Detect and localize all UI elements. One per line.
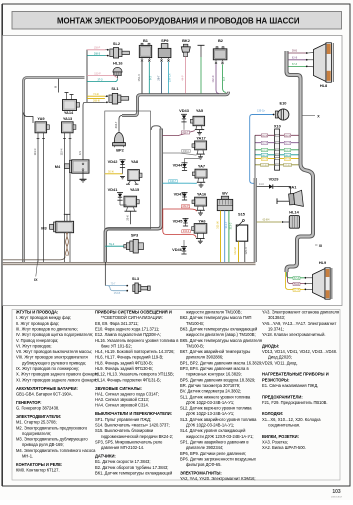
svg-text:115-Ч: 115-Ч: [59, 148, 63, 155]
wire row 59-Ф through X10: [255, 134, 299, 136]
speedometer sensor BV: [217, 190, 232, 210]
svg-text:М2. Электродвигатель предпуско: М2. Электродвигатель предпускового: [16, 425, 88, 430]
svg-text:SP3, SP5. Микровыключатель рел: SP3, SP5. Микровыключатель реле: [95, 439, 163, 444]
svg-text:X. Жгут проводов заднего прав: X. Жгут проводов заднего правого фонаря;: [16, 372, 98, 377]
wire 153-P to HL16: [87, 75, 117, 77]
svg-text:SL4. Датчик уровня охлаждающей: SL4. Датчик уровня охлаждающей: [180, 428, 245, 433]
svg-text:GB1-GB4. Батареи 6СТ-190А.: GB1-GB4. Батареи 6СТ-190А.: [16, 391, 73, 396]
wire 123-Ch from S15: [244, 241, 246, 262]
svg-text:432-Р: 432-Р: [182, 205, 189, 208]
wire row 62-ФЧ through X10: [255, 164, 299, 166]
wire YA15 to channel: [130, 211, 132, 224]
harness VI (top run to sensors): [122, 92, 229, 116]
svg-text:ВР1, ВР2. Датчик давления масл: ВР1, ВР2. Датчик давления масла 16.3829;: [180, 360, 262, 365]
svg-text:ДАТЧИКИ:: ДАТЧИКИ:: [95, 454, 116, 459]
svg-text:62-ФЧ: 62-ФЧ: [284, 164, 291, 167]
temperature sensor BK2: [181, 38, 190, 56]
gearbox lock switch S15: [236, 211, 247, 241]
svg-text:9-З: 9-З: [222, 77, 226, 81]
steering duplicate drive motor M3: [41, 214, 73, 232]
svg-text:62-Ф: 62-Ф: [262, 142, 267, 145]
svg-text:SL2: SL2: [113, 41, 121, 46]
rear lamp HL9: [313, 260, 332, 299]
svg-text:НА3. Сигнал звуковой С313;: НА3. Сигнал звуковой С313;: [95, 397, 149, 402]
svg-text:BK2: BK2: [182, 38, 191, 43]
svg-text:Е10. Фара заднего хода 171.371: Е10. Фара заднего хода 171.3711;: [95, 326, 159, 331]
svg-text:HL6, HL17. Фонарь передний 119: HL6, HL17. Фонарь передний 119-В;: [95, 355, 163, 360]
svg-text:S15. Выключатель блокировки: S15. Выключатель блокировки: [95, 428, 153, 433]
svg-text:VI. Жгут проводов;: VI. Жгут проводов;: [16, 343, 52, 348]
solenoid valve YA9: [35, 116, 49, 138]
wire 59-B to HL9: [288, 272, 305, 284]
turbine speed sensor B2: [213, 38, 227, 64]
svg-text:312-Г: 312-Г: [224, 221, 228, 228]
schematic area box: [3, 36, 343, 306]
reverse lamp E10: [275, 101, 289, 121]
svg-text:3013843;: 3013843;: [268, 315, 285, 320]
svg-text:YA17: YA17: [196, 136, 205, 141]
svg-text:**СВЕТОВОЙ СИГНАЛИЗАЦИИ:: **СВЕТОВОЙ СИГНАЛИЗАЦИИ:: [101, 315, 163, 320]
fuel level sensor SL1: [105, 86, 129, 104]
wire 9-Z from B2: [223, 64, 227, 92]
svg-text:КОНТАКТОРЫ И РЕЛЕ:: КОНТАКТОРЫ И РЕЛЕ:: [16, 462, 62, 467]
svg-text:YA16: YA16: [197, 192, 207, 197]
svg-text:МН-1.: МН-1.: [22, 454, 33, 459]
svg-text:434-К: 434-К: [183, 230, 190, 233]
svg-text:III: III: [54, 86, 58, 89]
svg-text:Е12. Лампа подкапотная ПД308-А: Е12. Лампа подкапотная ПД308-А;: [95, 332, 161, 337]
wire from harness III to valves: [24, 113, 34, 124]
svg-text:X10: X10: [274, 124, 281, 129]
svg-text:E10: E10: [280, 101, 287, 106]
svg-text:жидкости двигателя (авар.) ТМ1: жидкости двигателя (авар.) ТМ100В;: [186, 332, 256, 337]
svg-text:HA1: HA1: [289, 184, 298, 189]
svg-text:соединительная.: соединительная.: [268, 423, 300, 428]
svg-text:436-Т: 436-Т: [182, 131, 189, 134]
svg-text:62-Ф: 62-Ф: [292, 56, 297, 59]
wire 50-Zh into enclosure: [105, 173, 123, 175]
svg-text:М3. Электродвигатель дублирующ: М3. Электродвигатель дублирующего: [16, 437, 88, 442]
svg-text:баке УП 101-Б2;: баке УП 101-Б2;: [101, 343, 132, 348]
svg-text:VD42: VD42: [108, 159, 119, 164]
fuel level sensor SL3: [126, 276, 150, 294]
diode VD29: [257, 177, 279, 189]
svg-text:VII. Жгут проводов выключателя: VII. Жгут проводов выключателя массы;: [16, 349, 92, 354]
svg-text:III. Жгут проводов по двигател: III. Жгут проводов по двигателю;: [16, 326, 78, 331]
feeder wire (left of X10 rows): [254, 135, 256, 178]
wire 37-Z to HL16: [87, 79, 117, 82]
wire 102-F from B2: [216, 64, 219, 93]
svg-text:М4. Электродвигатель топливног: М4. Электродвигатель топливного насоса: [16, 448, 96, 453]
svg-text:II. Жгут проводов фар;: II. Жгут проводов фар;: [16, 321, 59, 326]
solenoid YA15: [124, 187, 140, 211]
wire 154-Ch from B1: [141, 62, 143, 94]
wire 268-Zh to SL1: [87, 97, 105, 99]
svg-text:F21, F29. Предохранитель ПВ10В: F21, F29. Предохранитель ПВ10В.: [262, 400, 328, 405]
wire row 66-З through X10: [255, 154, 299, 156]
channel top cap: [151, 126, 161, 130]
svg-text:37-З: 37-З: [98, 79, 103, 82]
svg-text:B1: B1: [143, 38, 149, 43]
svg-text:КМ0. Контактор КТ127.: КМ0. Контактор КТ127.: [16, 468, 60, 473]
wire 62-Zh to HL9: [286, 272, 305, 289]
svg-text:SL3. Датчик аварийного уровня: SL3. Датчик аварийного уровня топлива: [180, 417, 257, 422]
solenoid YA8: [126, 159, 142, 184]
wire 312-G from BV: [224, 211, 226, 262]
wire 67-Z to HL9: [287, 272, 305, 278]
svg-text:23-К: 23-К: [125, 215, 129, 221]
wire 9-Z from B1: [148, 62, 150, 94]
solenoid YA16: [192, 192, 207, 216]
svg-text:YA5: YA5: [196, 108, 204, 113]
svg-text:YA13: YA13: [63, 116, 73, 121]
licence plate lamp HL14: [289, 209, 299, 228]
svg-text:Е8, Е9. Фара 341.3711;: Е8, Е9. Фара 341.3711;: [95, 321, 139, 326]
svg-text:I. Жгут проводов между фар;: I. Жгут проводов между фар;: [16, 315, 71, 320]
wire 26-G from SP9: [161, 62, 163, 94]
wire 139-Sl from SP9: [168, 62, 170, 94]
svg-text:ВК3. Датчик температуры охлажд: ВК3. Датчик температуры охлаждающей: [180, 326, 257, 331]
wire X tick and label: [303, 115, 316, 117]
top clearance lamp HL16: [113, 61, 123, 79]
svg-text:ВР3, ВР4. Датчик давления масл: ВР3, ВР4. Датчик давления масла в: [180, 366, 249, 371]
wire TsTs2 to SP3: [105, 245, 124, 247]
svg-text:139-Сл: 139-Сл: [168, 73, 172, 82]
svg-text:HL9: HL9: [319, 260, 327, 265]
svg-text:HL16. Указатель верхнего уровн: HL16. Указатель верхнего уровня топлива …: [95, 338, 178, 343]
wire row 62-Ф through X10: [255, 142, 299, 144]
svg-text:Е1. Свеча накаливания ПЖД.: Е1. Свеча накаливания ПЖД.: [262, 383, 318, 388]
svg-text:59-Б: 59-Б: [294, 283, 299, 286]
title bar: [12, 12, 342, 30]
svg-text:жидкости двигателя ТМ100В;: жидкости двигателя ТМ100В;: [186, 310, 242, 315]
svg-text:44-Р: 44-Р: [180, 75, 184, 81]
wire row 67-З through X10: [255, 149, 299, 151]
svg-text:VIII. Жгут проводов электродви: VIII. Жгут проводов электродвигателя: [16, 355, 88, 360]
svg-text:ТЦ-2: ТЦ-2: [109, 243, 115, 246]
svg-text:67-З: 67-З: [294, 277, 299, 280]
wire 432-P channel to YA16: [163, 209, 197, 211]
solenoid YA5: [190, 108, 204, 135]
svg-text:102-Ф: 102-Ф: [211, 75, 215, 82]
svg-text:YA15: YA15: [130, 187, 140, 192]
svg-text:153-Р: 153-Р: [94, 72, 101, 75]
pressure sensor BP2: [113, 132, 126, 152]
svg-text:РЕЗИСТОРЫ:: РЕЗИСТОРЫ:: [262, 377, 290, 382]
svg-text:ВР5. Датчик давления воздуха 1: ВР5. Датчик давления воздуха 18.3829;: [180, 377, 255, 382]
wire from harness III to YA14: [58, 79, 60, 93]
pressure microswitch SP3: [124, 233, 144, 254]
svg-text:253-В: 253-В: [114, 292, 121, 295]
legend box frame: [12, 310, 340, 481]
reverse horn HA1: [277, 184, 303, 206]
wire 311-Zh from BV: [220, 211, 222, 262]
svg-text:АККУМУЛЯТОРНЫЕ БАТАРЕИ:: АККУМУЛЯТОРНЫЕ БАТАРЕИ:: [16, 386, 78, 391]
svg-text:438-С: 438-С: [183, 150, 190, 153]
svg-text:YA14: YA14: [64, 110, 74, 115]
svg-text:313-З: 313-З: [228, 222, 232, 229]
svg-text:135-Сл: 135-Сл: [257, 110, 266, 113]
svg-text:Диод Д202б;: Диод Д202б;: [268, 355, 292, 360]
svg-text:M3: M3: [41, 225, 47, 230]
rear lamp HL8: [314, 43, 334, 88]
svg-text:тормозных контурах 16.3829;: тормозных контурах 16.3829;: [186, 372, 242, 377]
wire 62-FCh to HL14: [257, 221, 282, 223]
svg-text:62-ФЧ: 62-ФЧ: [261, 164, 268, 167]
solenoid valve YA14: [63, 93, 80, 116]
svg-text:НА4. Сигнал звуковой С314.: НА4. Сигнал звуковой С314.: [95, 403, 149, 408]
svg-text:HL16: HL16: [113, 61, 123, 66]
wire 122-Zh from S15: [238, 241, 240, 262]
wire harness to SL3: [104, 262, 106, 286]
svg-text:В1. Датчик скорости 17.3843;: В1. Датчик скорости 17.3843;: [95, 459, 150, 464]
svg-text:HL12, HL13. Указатель поворота: HL12, HL13. Указатель поворота УП115В;: [95, 372, 174, 377]
svg-text:двигателя 3902886;: двигателя 3902886;: [186, 355, 223, 360]
wire 67-Z to HL8: [288, 65, 306, 67]
svg-text:67-З: 67-З: [292, 63, 297, 66]
svg-text:123-Ч: 123-Ч: [244, 247, 248, 254]
svg-text:ЗВУКОВЫЕ СИГНАЛЫ:: ЗВУКОВЫЕ СИГНАЛЫ:: [95, 386, 142, 391]
svg-text:BP2: BP2: [116, 148, 124, 153]
wire VD29 to HA1: [278, 187, 291, 194]
svg-text:ЭЛЕКТРОДВИГАТЕЛИ:: ЭЛЕКТРОДВИГАТЕЛИ:: [16, 414, 61, 419]
svg-text:НА1. Сигнал заднего хода С314Г: НА1. Сигнал заднего хода С314Г;: [95, 391, 159, 396]
svg-text:YA8: YA8: [131, 159, 139, 164]
svg-text:19.3741;: 19.3741;: [268, 326, 284, 331]
svg-text:ТМ100-В;: ТМ100-В;: [186, 321, 204, 326]
svg-text:311-Ж: 311-Ж: [215, 221, 219, 229]
solenoid YA6: [192, 219, 207, 244]
svg-text:ГЕНЕРАТОР:: ГЕНЕРАТОР:: [16, 400, 41, 405]
svg-text:ВЫКЛЮЧАТЕЛИ И ПЕРЕКЛЮЧАТЕЛИ:: ВЫКЛЮЧАТЕЛИ И ПЕРЕКЛЮЧАТЕЛИ:: [95, 411, 172, 416]
svg-text:ВК5. Датчик температуры масла: ВК5. Датчик температуры масла двигателя: [180, 338, 262, 343]
svg-text:YA2, YA4, YA20. Электромагнит: YA2, YA4, YA20. Электромагнит КЭМ16;: [180, 476, 256, 481]
svg-text:ВР6. Датчик загрязненности воз: ВР6. Датчик загрязненности воздушных: [180, 456, 256, 461]
svg-text:ПРЕДОХРАНИТЕЛИ:: ПРЕДОХРАНИТЕЛИ:: [262, 394, 303, 399]
svg-text:HL9. Фонарь задний ФП130-В;: HL9. Фонарь задний ФП130-В;: [95, 366, 153, 371]
svg-text:VD29: VD29: [269, 177, 280, 182]
svg-text:В2. Датчик оборотов турбины 17: В2. Датчик оборотов турбины 17.3843;: [95, 465, 168, 470]
svg-text:62-ФЧ: 62-ФЧ: [263, 219, 270, 222]
harness IX (bottom chassis run): [3, 262, 256, 265]
svg-text:IX: IX: [34, 278, 38, 282]
wires YA9 to harness IX: [37, 139, 39, 263]
svg-text:YA3. Электромагнит останова дв: YA3. Электромагнит останова двигателя: [262, 310, 339, 315]
svg-text:122-Ж: 122-Ж: [233, 247, 237, 255]
pressure switch SP9: [158, 38, 171, 62]
svg-text:62-Ф: 62-Ф: [285, 142, 290, 145]
svg-text:HL14. Фонарь подсветки ФП131-Б: HL14. Фонарь подсветки ФП131-Б;: [95, 377, 161, 382]
svg-text:YA18. Клапан электромагнитный.: YA18. Клапан электромагнитный.: [262, 332, 326, 337]
svg-text:фильтров ДСФ-65.: фильтров ДСФ-65.: [186, 462, 222, 467]
svg-text:59-Ф: 59-Ф: [262, 134, 267, 137]
wire XI tick and label: [315, 244, 318, 246]
solenoid YA7: [192, 164, 207, 188]
wires YA13 to harness IX: [64, 139, 66, 263]
wire 268-Z to SL2: [87, 55, 106, 57]
wire 74-Zh to SL1: [87, 95, 105, 97]
speed sensor B1: [139, 38, 151, 62]
svg-text:67-З: 67-З: [285, 150, 290, 152]
svg-text:гидромеханической передачи ВК2: гидромеханической передачи ВК24-2;: [101, 434, 173, 439]
svg-text:КОЛОДКИ:: КОЛОДКИ:: [262, 411, 283, 416]
svg-text:МОНТАЖ ЭЛЕКТРООБОРУДОВАНИЯ И П: МОНТАЖ ЭЛЕКТРООБОРУДОВАНИЯ И ПРОВОДОВ НА…: [57, 16, 300, 26]
svg-text:ВК2. Датчик температуры масла: ВК2. Датчик температуры масла ГМП: [180, 315, 251, 320]
svg-text:BR. Датчик тахометра 3071879;: BR. Датчик тахометра 3071879;: [180, 383, 240, 388]
svg-text:дублирующего рулевого привода;: дублирующего рулевого привода;: [22, 360, 86, 365]
svg-text:SP3: SP3: [131, 233, 139, 238]
svg-text:9-Ч: 9-Ч: [78, 151, 82, 155]
svg-text:268-Ж: 268-Ж: [93, 99, 101, 102]
svg-text:66-З: 66-З: [285, 155, 290, 157]
svg-text:VD46: VD46: [172, 247, 183, 252]
svg-text:ДУЖ 10Д2-03-24В-1А-У1;: ДУЖ 10Д2-03-24В-1А-У1;: [186, 400, 234, 405]
svg-text:113-Ч: 113-Ч: [33, 148, 37, 155]
svg-text:Х1...Х6, Х10...12, Х20. Колодк: Х1...Х6, Х10...12, Х20. Колодка: [262, 417, 321, 422]
enclosure box (cab floor panel): [105, 111, 151, 229]
wire from harness VI to BP2: [119, 116, 122, 132]
svg-text:268-З: 268-З: [94, 53, 101, 56]
svg-text:ДУЖ 10Д2-03-24В-1А-У1;: ДУЖ 10Д2-03-24В-1А-У1;: [186, 423, 234, 428]
svg-text:YA6: YA6: [198, 219, 206, 224]
svg-text:G. Генератор 3872438.: G. Генератор 3872438.: [16, 406, 59, 411]
wire IX tick and label: [36, 262, 38, 277]
svg-text:XI: XI: [319, 244, 322, 248]
svg-text:26-Г: 26-Г: [156, 75, 160, 81]
svg-text:самосвал: самосвал: [331, 495, 343, 498]
wire (return run along frame): [3, 257, 66, 260]
svg-text:9-З: 9-З: [149, 76, 153, 80]
svg-text:SP1. Датчик аварийного давлени: SP1. Датчик аварийного давления в: [180, 439, 249, 444]
svg-text:BV. Датчик спидометра 24.3802;: BV. Датчик спидометра 24.3802;: [180, 389, 241, 394]
svg-text:SF1. Пульт управления ПЖД;: SF1. Пульт управления ПЖД;: [95, 417, 151, 422]
svg-text:B2: B2: [218, 38, 224, 43]
svg-text:ВК1. Датчик температуры охлажд: ВК1. Датчик температуры охлаждающей: [95, 470, 172, 475]
wire 59-B to HL8: [288, 52, 306, 54]
svg-text:XI. Жгут проводов заднего лево: XI. Жгут проводов заднего левого фонаря;: [16, 377, 97, 382]
svg-text:VD43: VD43: [179, 108, 190, 113]
svg-text:74-Ж: 74-Ж: [93, 93, 99, 96]
svg-text:ЖГУТЫ И ПРОВОДА:: ЖГУТЫ И ПРОВОДА:: [15, 310, 58, 315]
svg-text:440-Г: 440-Г: [170, 180, 177, 183]
svg-text:44-С: 44-С: [259, 183, 264, 186]
wire SL1 to M4: [83, 102, 105, 163]
harness channel (central, to valves): [105, 129, 161, 263]
harness X (right main run): [287, 51, 314, 272]
svg-text:59-Б: 59-Б: [292, 50, 297, 53]
svg-text:ХА3. Розетка;: ХА3. Розетка;: [262, 439, 288, 444]
svg-text:ДИОДЫ:: ДИОДЫ:: [262, 343, 279, 348]
svg-text:158-Р: 158-Р: [94, 47, 101, 50]
svg-text:ХА2. Вилка ШРАП-500.: ХА2. Вилка ШРАП-500.: [262, 445, 306, 450]
svg-text:подогревателя;: подогревателя;: [22, 431, 51, 436]
svg-text:404-Г: 404-Г: [114, 121, 118, 128]
svg-text:VD13, VD14, VD41, VD42, VD43..: VD13, VD14, VD41, VD42, VD43...VD48.: [262, 349, 337, 354]
svg-text:S15: S15: [238, 211, 246, 216]
svg-text:VD29, VD11. Диод.: VD29, VD11. Диод.: [262, 360, 298, 365]
svg-text:ВК7. Датчик аварийной температ: ВК7. Датчик аварийной температуры: [180, 349, 250, 354]
wire 75-G to SL3: [105, 285, 126, 287]
svg-text:50-Ж: 50-Ж: [108, 171, 114, 174]
svg-text:SL1. Датчик нижнего уровня топ: SL1. Датчик нижнего уровня топлива: [180, 394, 251, 399]
svg-text:ВИЛКИ, РОЗЕТКИ:: ВИЛКИ, РОЗЕТКИ:: [262, 434, 299, 439]
svg-text:М1. Стартер 25.3708;: М1. Стартер 25.3708;: [16, 420, 57, 425]
svg-text:HL14: HL14: [289, 209, 299, 214]
wire bundle (left sensors riser): [86, 50, 88, 103]
wire 313-Z from BV: [228, 211, 230, 262]
wire 438-S channel to YA17: [163, 153, 197, 155]
temperature probe: [198, 44, 205, 46]
wire 440-G channel to YA7: [163, 182, 197, 184]
svg-text:HL8: HL8: [320, 83, 328, 88]
svg-text:S14. Выключатель «массы» 1420.: S14. Выключатель «массы» 1420.3737;: [95, 422, 170, 427]
ground under M4: [82, 171, 84, 180]
wire 44-P from BK2: [185, 57, 187, 94]
svg-text:SL1: SL1: [111, 86, 119, 91]
svg-text:62-Ж: 62-Ж: [294, 289, 300, 292]
wire 62-F to HL8: [288, 59, 306, 61]
svg-text:ТМ100-В;: ТМ100-В;: [186, 343, 204, 348]
svg-text:IV. Жгут проводов щитка подогр: IV. Жгут проводов щитка подогревателя;: [16, 332, 93, 337]
wire 436-T channel to YA5: [163, 131, 195, 136]
svg-text:SL3: SL3: [132, 276, 140, 281]
svg-text:V. Провод генератора;: V. Провод генератора;: [16, 338, 58, 343]
svg-text:67-З: 67-З: [262, 150, 267, 152]
svg-text:103: 103: [332, 489, 341, 495]
svg-text:154-Ч: 154-Ч: [137, 74, 141, 81]
svg-text:давления МП-2102-14.: давления МП-2102-14.: [101, 445, 144, 450]
fuel pump motor M4: [55, 160, 89, 173]
wire row 59-Ж through X10: [255, 158, 299, 160]
svg-text:ПРИБОРЫ СИСТЕМЫ ОСВЕЩЕНИЯ И: ПРИБОРЫ СИСТЕМЫ ОСВЕЩЕНИЯ И: [95, 310, 172, 315]
svg-text:YA9: YA9: [37, 116, 45, 121]
svg-text:VD45: VD45: [173, 219, 184, 224]
wire 158-P to SL2: [87, 49, 106, 51]
svg-text:НАГРЕВАТЕЛЬНЫЕ ПРИБОРЫ И: НАГРЕВАТЕЛЬНЫЕ ПРИБОРЫ И: [262, 372, 329, 377]
svg-text:BV: BV: [222, 190, 228, 195]
wire 434-K channel to YA6: [163, 210, 196, 238]
svg-text:59-Ж: 59-Ж: [285, 159, 290, 161]
harness III (left loop): [24, 78, 85, 263]
svg-text:YA5...YA9, YA13...YA17. Электр: YA5...YA9, YA13...YA17. Электромагнит: [262, 321, 336, 326]
svg-text:жидкости ДУЖ 12ХЛ-03-24В-1А-У1: жидкости ДУЖ 12ХЛ-03-24В-1А-У1;: [186, 434, 254, 439]
svg-text:VD44: VD44: [173, 163, 184, 168]
harness (feeder to rear lamps group): [254, 178, 257, 262]
svg-text:HL8. Фонарь задний ФП130-В;: HL8. Фонарь задний ФП130-В;: [95, 360, 153, 365]
svg-text:YA7: YA7: [198, 164, 205, 169]
wire 135-Sl to E10: [250, 115, 275, 184]
svg-text:VD41: VD41: [108, 187, 119, 192]
svg-text:ВР6, ВР9. Датчики реле давлени: ВР6, ВР9. Датчики реле давления;: [180, 451, 246, 456]
wire 253-V to SL3: [108, 286, 127, 291]
solenoid YA17: [192, 136, 207, 160]
svg-text:привода руля ДВ-169;: привода руля ДВ-169;: [22, 442, 64, 447]
twisted pair M3 to harness IX: [66, 233, 67, 256]
svg-text:HL4, HL19. Боковой повторитель: HL4, HL19. Боковой повторитель 14.3726;: [95, 349, 175, 354]
svg-text:ЭЛЕКТРОМАГНИТЫ:: ЭЛЕКТРОМАГНИТЫ:: [180, 471, 222, 476]
wire 9-Z from probe: [200, 57, 202, 93]
svg-text:59-Ж: 59-Ж: [262, 159, 267, 161]
fuel level sensor SL2: [106, 41, 130, 58]
svg-text:59-Ф: 59-Ф: [285, 134, 290, 137]
svg-text:66-З: 66-З: [262, 155, 267, 157]
svg-text:SP9: SP9: [161, 38, 169, 43]
svg-text:двигателе 3902344;: двигателе 3902344;: [186, 445, 223, 450]
svg-text:ДУЖ 10Д2-13-24В-1А-У1;: ДУЖ 10Д2-13-24В-1А-У1;: [186, 411, 234, 416]
svg-text:SL2. Датчик верхнего уровня то: SL2. Датчик верхнего уровня топлива: [180, 406, 252, 411]
svg-text:75-Г: 75-Г: [111, 282, 116, 285]
svg-text:M4: M4: [55, 164, 61, 169]
